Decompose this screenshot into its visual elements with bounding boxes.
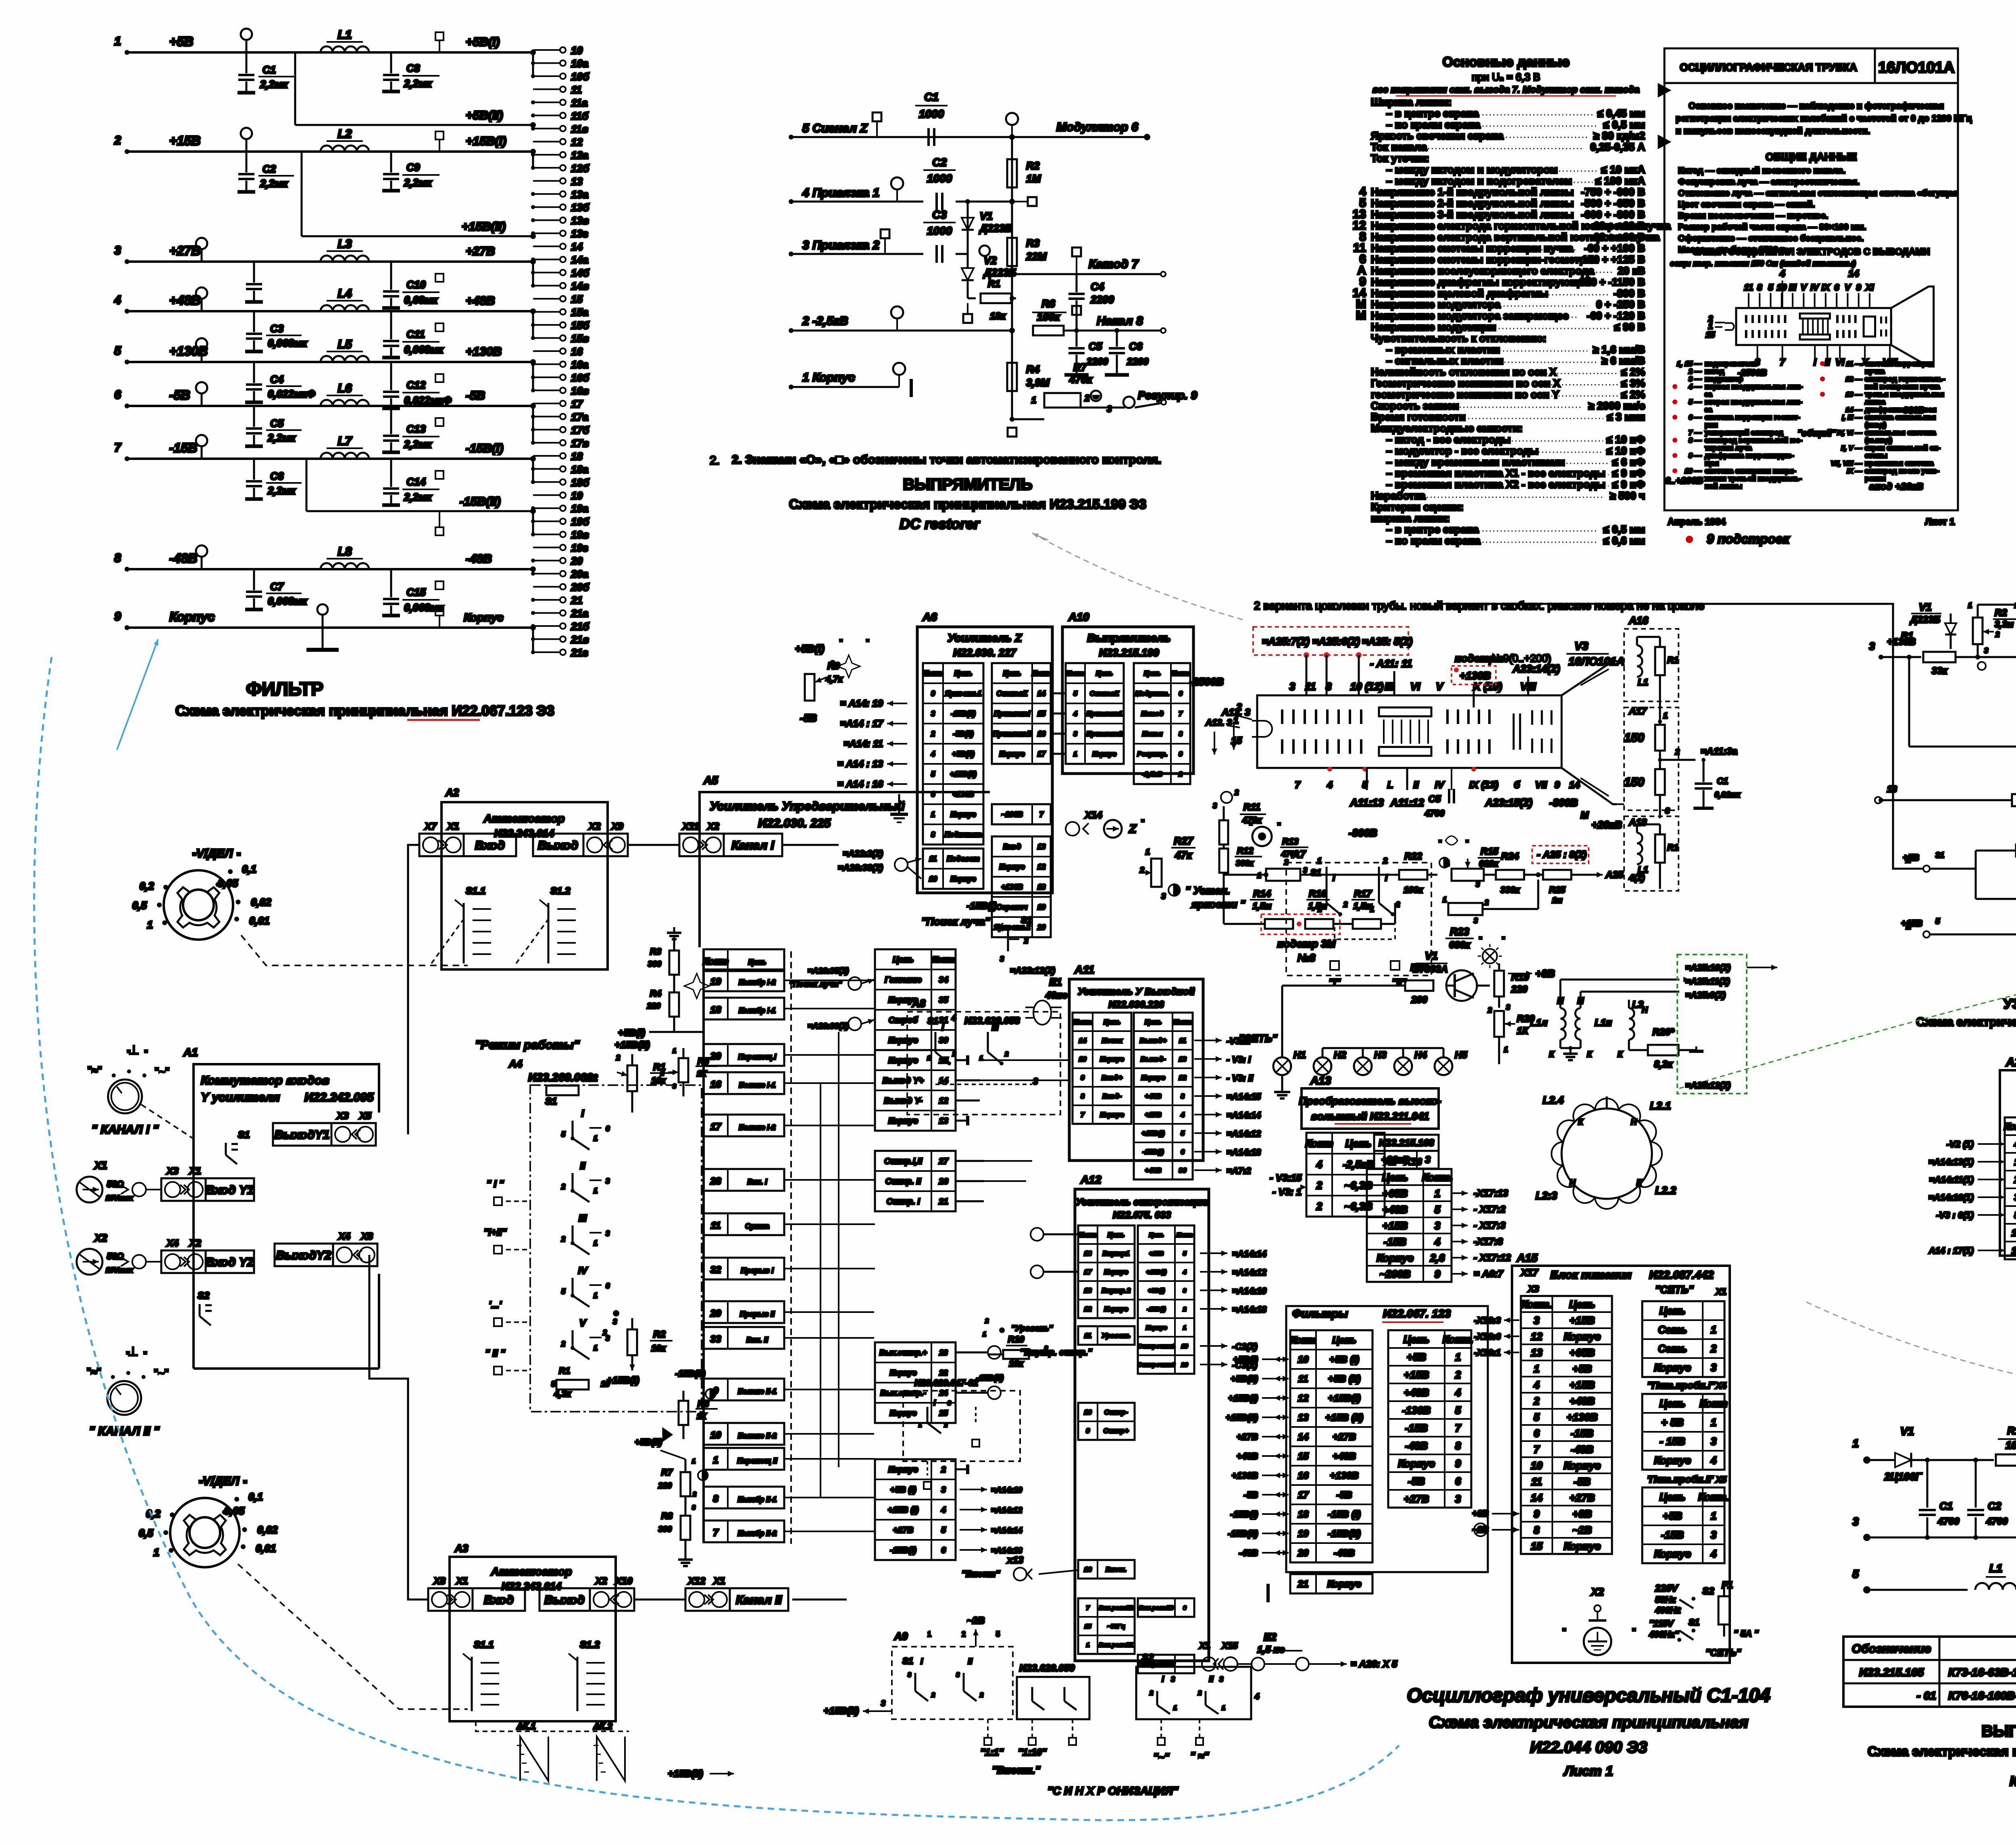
svg-text:14а: 14а (571, 254, 588, 266)
svg-text:все напряжения отн. вывода 7.: все напряжения отн. вывода 7. Модулятор … (1372, 84, 1639, 95)
svg-text:Цепь: Цепь (1345, 1137, 1372, 1149)
rotary switch V/ДЕЛ (170, 1498, 240, 1567)
svg-text:=А14:14: =А14:14 (991, 1526, 1022, 1535)
lamp symbol (1483, 949, 1497, 963)
svg-text:-5В: -5В (1574, 1475, 1591, 1487)
svg-text:31: 31 (1935, 851, 1944, 860)
svg-text:7: 7 (1039, 811, 1044, 819)
svg-text:2: 2 (985, 1318, 989, 1325)
svg-text:А6: А6 (922, 611, 937, 623)
svg-text:8: 8 (931, 831, 935, 839)
svg-text:1: 1 (1317, 857, 1322, 865)
wire Выход Y1 up to A2 area (408, 845, 419, 1134)
svg-text:(выход): (выход) (1865, 436, 1892, 444)
svg-text:X2: X2 (94, 1232, 107, 1244)
sawtooth symbols below A3 (520, 1737, 548, 1781)
svg-text:≤ 0,5 мм: ≤ 0,5 мм (1604, 119, 1645, 131)
svg-text:22: 22 (939, 1369, 948, 1377)
svg-text:Корпус: Корпус (1564, 1459, 1601, 1471)
svg-text:20: 20 (1297, 1548, 1309, 1559)
svg-text:IX —: IX — (1847, 467, 1862, 475)
svg-text:29: 29 (710, 1308, 721, 1319)
svg-text:9: 9 (114, 610, 121, 623)
svg-text:4: 4 (1533, 1379, 1540, 1391)
svg-text:IV: IV (578, 1265, 588, 1276)
svg-text:5: 5 (114, 344, 121, 358)
svg-text:18: 18 (710, 1005, 721, 1015)
svg-text:(вход): (вход) (1865, 421, 1886, 429)
svg-text:+15В: +15В (1570, 1314, 1595, 1326)
svg-text:X11: X11 (682, 821, 699, 832)
svg-text:14: 14 (571, 241, 583, 253)
svg-text:рии: рии (1705, 421, 1718, 429)
svg-text:IV, VI —: IV, VI — (1837, 429, 1862, 437)
svg-text:9: 9 (1856, 283, 1862, 293)
svg-text:2: 2 (931, 1692, 935, 1699)
X16 table Цепь/Конт (1367, 1169, 1452, 1282)
svg-text:X3: X3 (336, 1111, 349, 1121)
wire +15В long run (1395, 924, 1923, 1000)
svg-text:R1: R1 (988, 279, 1000, 289)
svg-text:3: 3 (692, 1504, 696, 1511)
svg-text:3: 3 (1506, 1003, 1510, 1011)
svg-text:система смещения напря-: система смещения напря- (1705, 467, 1796, 475)
svg-text:16ЛО101А: 16ЛО101А (1568, 655, 1624, 668)
svg-text:7: 7 (1081, 1111, 1085, 1119)
svg-text:R10: R10 (1008, 1334, 1025, 1344)
svg-text:А13. 3: А13. 3 (1205, 718, 1232, 728)
svg-text:Цвет свечения экрана — синий.: Цвет свечения экрана — синий. (1678, 200, 1815, 209)
svg-text:Поиск: Поиск (1102, 1037, 1123, 1044)
svg-text:- X17:2: - X17:2 (1474, 1204, 1506, 1215)
svg-text:17: 17 (571, 398, 583, 410)
svg-text:VI: VI (1835, 357, 1845, 368)
svg-text:L1: L1 (1989, 1562, 2003, 1575)
svg-text:5: 5 (1073, 690, 1077, 697)
svg-text:Синхр-: Синхр- (1104, 1408, 1128, 1416)
svg-text:0,05: 0,05 (224, 1505, 245, 1517)
svg-text:C8: C8 (406, 62, 420, 74)
svg-text:1: 1 (1711, 1510, 1716, 1522)
svg-text:Калибр I-1: Калибр I-1 (739, 1007, 776, 1015)
svg-text:Синхр.I,II: Синхр.I,II (884, 1157, 923, 1166)
svg-text:третья квадрупольная: третья квадрупольная (1865, 390, 1944, 398)
capacitor C15 0,068мк shunt after inductor (390, 569, 392, 597)
svg-text:И22.030.226: И22.030.226 (1108, 999, 1164, 1010)
svg-text:3: 3 (606, 1229, 610, 1238)
svg-text:2. Знаками «О», «□» обозна: 2. Знаками «О», «□» обозначены точки авт… (732, 453, 1161, 466)
resistor R18 200 (1405, 980, 1433, 991)
svg-text:≤ 9 пФ: ≤ 9 пФ (1612, 478, 1645, 491)
control square (435, 471, 444, 479)
svg-text:+5В(I): +5В(I) (1233, 1354, 1258, 1365)
svg-text:3: 3 (1711, 1361, 1717, 1373)
svg-text:8: 8 (713, 1493, 719, 1504)
resistor R24 330к (1496, 870, 1524, 880)
svg-text:17: 17 (1084, 1268, 1092, 1276)
capacitor C10 shunt (253, 262, 255, 283)
svg-text:2,6: 2,6 (1430, 1252, 1445, 1264)
svg-text:-15В: -15В (1405, 1422, 1428, 1434)
svg-text:=А20:35(2): =А20:35(2) (808, 967, 849, 976)
svg-text:Цепь: Цепь (1149, 1231, 1164, 1238)
svg-text:220: 220 (647, 1002, 660, 1011)
svg-text:ной линзы: ной линзы (1705, 482, 1742, 490)
svg-text:31: 31 (939, 1016, 948, 1025)
svg-text:-48В: -48В (466, 552, 492, 566)
svg-text:вольтный И23.211.041: вольтный И23.211.041 (1311, 1110, 1429, 1122)
svg-text:катод: катод (1705, 367, 1724, 375)
svg-text:Синхроимп3: Синхроимп3 (1137, 1661, 1175, 1668)
svg-text:18: 18 (1037, 883, 1045, 891)
potentiometer 1-2-3 (1266, 869, 1300, 881)
svg-text:Уровень: Уровень (1102, 1332, 1131, 1340)
pin leader lines top (1748, 293, 1749, 308)
svg-text:1К: 1К (697, 1069, 707, 1078)
svg-text:2,2мк: 2,2мк (260, 177, 288, 189)
svg-text:3: 3 (613, 1318, 617, 1326)
control circle (1006, 113, 1018, 125)
svg-text:L3: L3 (1632, 999, 1644, 1010)
svg-text:Выход Y+: Выход Y+ (883, 1076, 924, 1086)
potentiometer R23 680к (1448, 903, 1483, 915)
svg-text:=А14:15: =А14:15 (1227, 1092, 1261, 1102)
svg-text:первая квадрупольная лин-: первая квадрупольная лин- (1705, 383, 1803, 391)
svg-text:20б: 20б (571, 581, 589, 593)
svg-text:40нс: 40нс (1045, 990, 1068, 1001)
svg-text:Вкл. II: Вкл. II (746, 1336, 768, 1344)
svg-text:11: 11 (929, 855, 937, 863)
svg-text:R7: R7 (661, 1467, 673, 1477)
svg-text:1 Корпус: 1 Корпус (802, 371, 855, 384)
svg-text:-600 ÷ -800 В: -600 ÷ -800 В (1581, 208, 1645, 220)
svg-text:16б: 16б (571, 372, 589, 384)
svg-text:X1: X1 (455, 1576, 468, 1587)
svg-text:C1: C1 (1939, 1500, 1953, 1512)
svg-text:1: 1 (1455, 1351, 1461, 1363)
svg-text:19: 19 (1037, 903, 1045, 911)
svg-text:3: 3 (1183, 1287, 1187, 1294)
svg-text:12: 12 (939, 1096, 948, 1106)
svg-text:R3: R3 (650, 946, 661, 957)
svg-text:2: 2 (941, 1465, 946, 1475)
svg-text:3: 3 (948, 1400, 951, 1407)
A5 pin cell 8 Калибр II-1 (704, 1487, 784, 1508)
svg-text:Катод: Катод (1141, 710, 1164, 718)
svg-text:-5В: -5В (169, 388, 190, 402)
A5 box right spine (989, 792, 990, 949)
svg-text:R2: R2 (585, 1073, 598, 1084)
svg-text:IX (13): IX (13) (1469, 780, 1498, 790)
svg-text:Напряжение системы коррекции-г: Напряжение системы коррекции-геометрии (1371, 254, 1599, 266)
svg-text:2: 2 (1084, 393, 1090, 403)
svg-text:X8: X8 (433, 1576, 446, 1587)
svg-text:экран сигнальной си-: экран сигнальной си- (1865, 444, 1941, 452)
junction bus for pins 19г..20а (532, 569, 534, 574)
svg-text:≥ 80 кд/м2: ≥ 80 кд/м2 (1593, 130, 1645, 142)
junction bus for pins 14..14в (532, 262, 534, 286)
svg-text:Вкл. I: Вкл. I (748, 1178, 768, 1186)
svg-text:-5В: -5В (1408, 1475, 1425, 1487)
svg-text:1: 1 (673, 1048, 676, 1055)
wires column B to A11/A12 (980, 1059, 1069, 1061)
svg-text:ΔК.2: ΔК.2 (593, 1721, 612, 1731)
arrow А25:4(2) (1571, 874, 1597, 876)
svg-text:-V2 (1): -V2 (1) (1947, 1139, 1974, 1149)
svg-text:Конт.: Конт. (1443, 1333, 1474, 1345)
svg-text:0,068мк: 0,068мк (268, 595, 308, 607)
resistor R11 22к (2010, 657, 2010, 690)
svg-text:3: 3 (956, 1672, 960, 1679)
svg-text:3: 3 (1711, 1435, 1717, 1447)
control square (435, 581, 444, 589)
small table И23.215.168 +20кВ (1365, 1121, 1437, 1122)
svg-text:1,5 нс: 1,5 нс (1257, 1644, 1285, 1655)
svg-text:L3: L3 (337, 237, 352, 251)
svg-text:11: 11 (1531, 1475, 1542, 1487)
block A1 Коммутатор входов Y усилителя И22.242.095 (194, 1064, 379, 1369)
svg-text:21б: 21б (571, 620, 589, 632)
svg-text:~50Гц: ~50Гц (1107, 1623, 1125, 1630)
svg-text:1: 1 (1711, 1416, 1716, 1428)
svg-text:+130В: +130В (1232, 1471, 1258, 1481)
svg-text:X3: X3 (1527, 1284, 1539, 1294)
svg-text:= А20: X 5: = А20: X 5 (1351, 1659, 1397, 1670)
svg-text:R8: R8 (661, 1511, 673, 1521)
svg-text:32: 32 (710, 1265, 721, 1275)
svg-text:"С И Н Х Р ОНИЗАЦИЯ": "С И Н Х Р ОНИЗАЦИЯ" (1048, 1785, 1179, 1797)
svg-text:ВыходY1: ВыходY1 (275, 1128, 330, 1142)
svg-text:4: 4 (1254, 1692, 1259, 1701)
svg-text:13: 13 (1531, 1346, 1543, 1358)
svg-text:C4: C4 (1091, 281, 1104, 293)
svg-text:Корпус: Корпус (1104, 1305, 1128, 1313)
svg-text:13 —: 13 — (1845, 391, 1862, 398)
svg-text:11: 11 (1744, 283, 1753, 293)
svg-text:ВыходY2: ВыходY2 (276, 1249, 331, 1262)
svg-text:3: 3 (1455, 1493, 1461, 1505)
svg-text:2: 2 (1487, 1006, 1492, 1014)
svg-text:14 —: 14 — (1845, 406, 1862, 414)
junction bus for pins 13..13г (530, 233, 536, 239)
svg-text:-800В: -800В (1900, 405, 1924, 415)
deflection yoke circle L2 (1562, 1109, 1652, 1199)
svg-text:Цепь: Цепь (1144, 670, 1161, 677)
svg-text:": " (144, 1048, 148, 1059)
svg-text:14б: 14б (571, 267, 589, 279)
A5 pin cell 16 Баланс I-1 (704, 1072, 784, 1094)
svg-text:Усилитель Z: Усилитель Z (948, 632, 1022, 644)
svg-text:13б: 13б (571, 202, 589, 214)
svg-text:Конт: Конт (932, 955, 955, 965)
svg-text:Цепь: Цепь (1569, 1298, 1595, 1310)
junction bus for pins 19..19в (532, 511, 534, 535)
svg-text:1: 1 (594, 1344, 598, 1352)
svg-text:R11: R11 (1243, 802, 1260, 813)
svg-text:=А20:39(2): =А20:39(2) (808, 1022, 849, 1031)
wire from yoke to green box (1650, 1088, 1679, 1121)
svg-text:Синхроимп3: Синхроимп3 (1137, 1361, 1175, 1368)
svg-text:Баланс I-1: Баланс I-1 (739, 1081, 775, 1089)
column B table 2: Выход/Синхр (875, 1050, 956, 1131)
svg-text:5: 5 (1534, 1411, 1540, 1423)
junction bus for pins 20б..21г (532, 628, 534, 652)
svg-text:А17: А17 (1629, 706, 1647, 717)
svg-text:X1: X1 (1715, 1287, 1727, 1297)
svg-text:Привязка2: Привязка2 (1086, 730, 1123, 738)
svg-text:=А14 : 17: =А14 : 17 (840, 718, 884, 729)
control square (435, 374, 444, 382)
svg-text:≤ 0,5 мм: ≤ 0,5 мм (1604, 523, 1645, 535)
terminal 2 +5В (1923, 865, 1930, 872)
junction bus for pins 10..10б (532, 52, 534, 76)
block A18 dashed with L1 R1 (1624, 816, 1679, 891)
block A3 Аттенюатор И22.243.014 (bottom) (450, 1557, 616, 1721)
inductor L7 (321, 453, 369, 459)
wire: Регулир 9 output (1105, 407, 1125, 409)
svg-text:Перемещ II: Перемещ II (737, 1457, 777, 1465)
inductor L1 (321, 46, 369, 52)
svg-text:0,1: 0,1 (242, 863, 256, 875)
svg-text:X15: X15 (1221, 1641, 1238, 1651)
svg-text:≤ 3%: ≤ 3% (1621, 377, 1645, 389)
svg-text:-15В(II): -15В(II) (675, 1369, 706, 1379)
wire: input line 3 +27В (127, 260, 533, 263)
wires bias network (1383, 874, 1399, 876)
svg-text:Н3: Н3 (1374, 1050, 1387, 1061)
svg-text:Цепь: Цепь (1404, 1333, 1430, 1345)
svg-text:1: 1 (1968, 601, 1972, 609)
svg-text:2: 2 (944, 1422, 948, 1428)
block A6 Усилитель Z И22.030.227 (917, 627, 1052, 893)
svg-text:S1: S1 (1689, 1617, 1699, 1627)
svg-text:М: М (1581, 810, 1589, 821)
svg-text:5: 5 (941, 1526, 946, 1535)
svg-text:10а: 10а (571, 58, 588, 70)
svg-text:X2: X2 (594, 1576, 607, 1587)
svg-text:Основные данные: Основные данные (1443, 54, 1570, 70)
svg-text:2: 2 (1383, 857, 1387, 865)
svg-text:К: К (1549, 1050, 1555, 1059)
svg-text:18а: 18а (571, 463, 588, 475)
svg-text:+5В: +5В (169, 34, 194, 49)
svg-text:– временная пластина X1 - все: – временная пластина X1 - все электроды (1386, 467, 1605, 479)
svg-text:0,1: 0,1 (248, 1491, 263, 1503)
svg-text:1: 1 (594, 1239, 598, 1247)
svg-text:2: 2 (602, 1329, 607, 1337)
svg-text:9 —: 9 — (1689, 451, 1702, 460)
svg-text:– между катодом и модулятором: – между катодом и модулятором (1386, 163, 1558, 175)
svg-text:17: 17 (1298, 1490, 1309, 1501)
svg-text:5 —: 5 — (1689, 398, 1702, 406)
svg-text:Цепь: Цепь (954, 670, 973, 678)
svg-text:4,3к: 4,3к (554, 1389, 572, 1399)
svg-text:I: I (1333, 873, 1335, 883)
svg-text:система коррекции геомет-: система коррекции геомет- (1705, 413, 1800, 421)
svg-text:Блок питания: Блок питания (1550, 1269, 1631, 1281)
svg-text:10Vmax: 10Vmax (106, 1266, 133, 1274)
svg-text:Д223Б: Д223Б (1910, 614, 1940, 625)
svg-text:Оформление — стеклянное бесцок: Оформление — стеклянное бесцокольное. (1678, 233, 1864, 243)
svg-text:=А23:12(2): =А23:12(2) (1010, 965, 1055, 976)
svg-text:-48В: -48В (169, 551, 197, 566)
document: ОСЦИЛЛОГРАФИЧЕСКАЯ ТРУБКА 16ЛО101А datasheet page (1664, 48, 1958, 510)
svg-text:сопр: нагр. пластин 150 Ом (ка: сопр: нагр. пластин 150 Ом (каждой пласт… (1670, 260, 1856, 268)
svg-text:5: 5 (1435, 1203, 1441, 1215)
svg-text:1м: 1м (1552, 896, 1562, 905)
svg-text:Корпус: Корпус (999, 750, 1025, 758)
svg-text:+5В: +5В (1407, 1351, 1426, 1363)
svg-text:150: 150 (1624, 731, 1644, 745)
resistor R3 22М vertical (1007, 238, 1017, 266)
A5 pin cell 20 Перемещ.I (704, 1044, 784, 1066)
svg-text:+130В: +130В (466, 345, 502, 358)
svg-text:Напряжение диафрагмы корректир: Напряжение диафрагмы корректирующей (1371, 276, 1591, 288)
ground A12 Корпус (1210, 1318, 1222, 1319)
svg-text:30: 30 (1179, 1167, 1187, 1174)
junction bus for pins 17..17в (532, 406, 534, 443)
svg-text:Корпус: Корпус (1100, 1111, 1124, 1119)
svg-text:Основное назначение — наблюден: Основное назначение — наблюдение и фотог… (1689, 101, 1944, 111)
svg-text:17в: 17в (571, 437, 589, 449)
svg-text:34: 34 (939, 976, 948, 985)
svg-text:50Ω: 50Ω (107, 1179, 124, 1189)
A5 pin cell 32 Прерыв I (704, 1258, 784, 1279)
svg-text:13г: 13г (571, 228, 588, 240)
svg-text:20: 20 (1037, 924, 1045, 932)
svg-text:≤ 2%: ≤ 2% (1621, 366, 1645, 378)
svg-text:4: 4 (2014, 1139, 2016, 1150)
svg-text:C3: C3 (270, 322, 284, 335)
svg-text:2: 2 (660, 1070, 664, 1077)
svg-text:27: 27 (938, 1157, 949, 1166)
svg-text:19: 19 (710, 976, 721, 987)
svg-text:вторая квадрупольная лин-: вторая квадрупольная лин- (1705, 398, 1802, 406)
svg-text:13: 13 (1179, 1055, 1187, 1063)
title bar (1664, 82, 1958, 84)
svg-text:0,01: 0,01 (256, 1542, 276, 1554)
svg-text:Наработка: Наработка (1371, 490, 1426, 502)
svg-text:2: 2 (1395, 901, 1400, 909)
svg-text:15а: 15а (571, 306, 588, 318)
svg-text:1000: 1000 (927, 172, 952, 185)
svg-text:+5В (II): +5В (II) (1328, 1374, 1361, 1385)
svg-text:Привязка1: Привязка1 (1086, 710, 1122, 718)
svg-text:L2.4: L2.4 (1543, 1094, 1564, 1106)
svg-text:26: 26 (938, 1177, 948, 1186)
svg-text:1М: 1М (1026, 173, 1041, 185)
svg-text:III: III (579, 1213, 587, 1224)
svg-text:ПривязкаII: ПривязкаII (993, 730, 1032, 738)
svg-text:+27В: +27В (893, 1526, 914, 1535)
svg-text:Корпус: Корпус (1564, 1540, 1601, 1552)
svg-text:Лист 1: Лист 1 (1563, 1764, 1613, 1779)
control square (435, 323, 444, 331)
svg-text:+48В: +48В (466, 294, 495, 308)
svg-text:+27В: +27В (466, 245, 495, 258)
svg-text:X10: X10 (614, 1576, 633, 1587)
svg-text:1: 1 (713, 1455, 718, 1466)
svg-text:+15В(II): +15В(II) (1226, 1412, 1258, 1423)
svg-text:V: V (1436, 680, 1444, 693)
svg-text:+48В: +48В (1383, 1203, 1408, 1215)
block A25 Узел управления ЭЛТ И23.460.007 (2000, 1070, 2016, 1256)
inductor L8 (321, 563, 369, 569)
svg-text:б: б (1514, 780, 1520, 790)
svg-text:1: 1 (692, 1458, 696, 1465)
svg-text:3: 3 (1303, 866, 1307, 874)
svg-text:R16: R16 (1309, 888, 1327, 899)
